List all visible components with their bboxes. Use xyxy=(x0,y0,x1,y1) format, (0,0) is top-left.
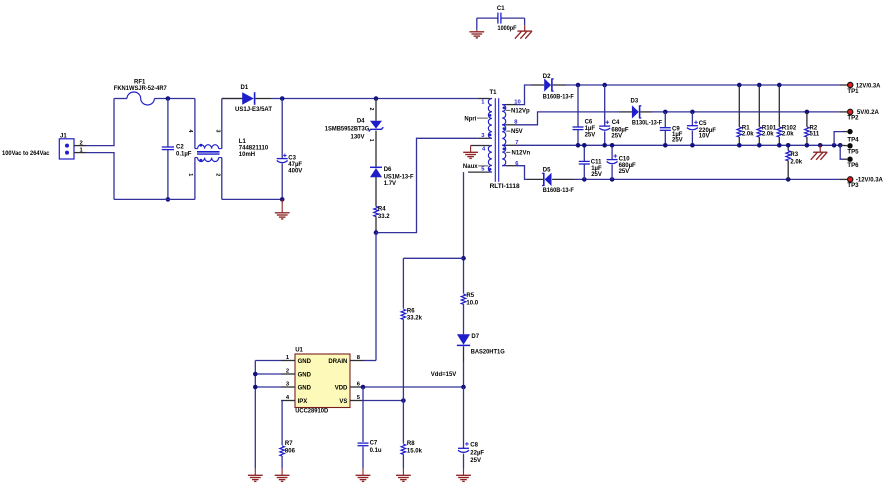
wire T1 pin10 to D2 xyxy=(517,85,532,105)
junction GND pin2 xyxy=(253,372,258,377)
junction R3 top xyxy=(786,143,791,148)
svg-text:10.0: 10.0 xyxy=(466,300,478,306)
svg-text:1SMB5952BT3G: 1SMB5952BT3G xyxy=(325,126,370,133)
wire L1 pin4 riser xyxy=(194,99,196,149)
U1 pin 3 GND xyxy=(281,382,312,392)
test point TP3 xyxy=(839,177,883,190)
svg-text:25V: 25V xyxy=(672,138,683,144)
svg-text:US1M-13-F: US1M-13-F xyxy=(384,173,414,180)
junction snubber bottom xyxy=(374,230,379,235)
capacitor C9 xyxy=(660,112,683,145)
svg-text:R1: R1 xyxy=(742,125,750,131)
diode D7 xyxy=(457,334,505,387)
wire VS rail xyxy=(364,400,403,402)
L1 pin 2 number xyxy=(214,173,220,176)
junction chassis ground xyxy=(818,143,823,148)
svg-text:GND: GND xyxy=(298,372,312,378)
test point TP4 xyxy=(843,129,859,144)
resistor R102 xyxy=(777,85,797,145)
junction TP4 riser xyxy=(832,143,837,148)
svg-text:2: 2 xyxy=(80,141,83,147)
svg-text:T1: T1 xyxy=(490,90,498,96)
label Npri xyxy=(464,116,487,122)
svg-text:C5: C5 xyxy=(699,121,707,127)
label Naux xyxy=(463,164,488,170)
junction C6 bottom xyxy=(576,143,581,148)
wire DRAIN riser xyxy=(364,360,376,362)
junction GND pin3 xyxy=(253,385,258,390)
svg-text:TP6: TP6 xyxy=(847,162,859,169)
svg-text:33.2k: 33.2k xyxy=(407,316,423,322)
junction C6 top xyxy=(576,83,581,88)
test point TP2 xyxy=(839,109,879,122)
wire to TP4 xyxy=(834,132,843,146)
T1 pin 5 number xyxy=(481,166,485,172)
svg-text:10V: 10V xyxy=(699,133,710,139)
svg-text:TP5: TP5 xyxy=(847,149,859,156)
svg-text:R2: R2 xyxy=(810,125,818,131)
svg-text:R7: R7 xyxy=(285,441,293,447)
junction C5 bottom xyxy=(690,143,695,148)
junction C11 top xyxy=(582,143,587,148)
svg-text:TP2: TP2 xyxy=(847,115,859,122)
junction VDD C8 xyxy=(461,385,466,390)
diode D1 xyxy=(222,85,272,113)
diode D3 xyxy=(619,99,662,127)
svg-text:C2: C2 xyxy=(176,144,184,150)
wire VS to R8 xyxy=(402,401,404,444)
wire D1 to T1 pin1 xyxy=(271,98,477,100)
svg-text:25V: 25V xyxy=(470,458,481,464)
label Vdd=15V xyxy=(431,371,457,378)
svg-text:D4: D4 xyxy=(357,118,365,124)
transformer T1 core xyxy=(490,90,499,182)
svg-text:2: 2 xyxy=(214,173,220,176)
svg-text:C7: C7 xyxy=(370,441,378,447)
svg-text:-12V/0.3A: -12V/0.3A xyxy=(856,177,884,184)
svg-text:VDD: VDD xyxy=(335,385,348,391)
earth ground GND bus xyxy=(248,469,263,482)
earth ground at C1 left xyxy=(469,18,484,38)
inductor L1 xyxy=(195,139,269,162)
svg-text:1.7V: 1.7V xyxy=(384,181,396,187)
svg-text:22µF: 22µF xyxy=(470,450,484,456)
J1 pin 2 stub xyxy=(74,141,86,147)
diode D2 xyxy=(531,74,574,100)
svg-text:400V: 400V xyxy=(288,169,302,175)
wire common rail xyxy=(517,144,841,146)
svg-text:B160B-13-F: B160B-13-F xyxy=(543,187,574,194)
junction C3 top xyxy=(280,96,285,101)
wire aux to R6 xyxy=(403,257,463,259)
diode D6 xyxy=(370,167,414,187)
resistor R101 xyxy=(757,85,777,145)
L1 pin 3 number xyxy=(214,130,220,133)
svg-text:UCC28910D: UCC28910D xyxy=(295,408,328,415)
svg-text:2: 2 xyxy=(368,108,374,111)
earth ground at T1 pin4 xyxy=(463,146,478,159)
wire 12V rail xyxy=(566,84,839,86)
capacitor C3 xyxy=(277,99,303,200)
capacitor C5 xyxy=(687,112,716,145)
junction VDD stub xyxy=(361,385,366,390)
capacitor C1 xyxy=(477,6,525,32)
earth ground R8 xyxy=(396,469,411,482)
svg-text:R3: R3 xyxy=(790,152,798,158)
U1 pin 2 GND xyxy=(281,369,312,379)
T1 pin 1 number xyxy=(481,100,485,106)
svg-text:C10: C10 xyxy=(619,156,631,162)
wire L1 pin3 riser xyxy=(221,99,223,149)
op-amp U1 body xyxy=(295,348,350,415)
svg-text:TP1: TP1 xyxy=(847,88,859,95)
svg-text:Npri: Npri xyxy=(464,116,476,122)
junction C10 top xyxy=(610,143,615,148)
earth ground C8 xyxy=(456,469,471,482)
resistor R7 xyxy=(280,441,296,469)
diode D5 xyxy=(527,167,574,194)
junction R101 top xyxy=(757,83,762,88)
junction C3 bottom xyxy=(280,197,285,202)
svg-text:4: 4 xyxy=(187,130,193,133)
svg-text:D6: D6 xyxy=(384,167,392,173)
svg-text:GND: GND xyxy=(298,385,312,391)
wire snubber node to T1 pin3 xyxy=(376,138,477,232)
label 100Vac to 264Vac xyxy=(2,150,50,157)
T1 secondary winding N12Vp xyxy=(502,105,516,125)
svg-text:Vdd=15V: Vdd=15V xyxy=(431,371,457,378)
svg-text:B160B-13-F: B160B-13-F xyxy=(543,93,574,100)
junction R3 bottom xyxy=(786,177,791,182)
svg-text:BAS20HT1G: BAS20HT1G xyxy=(471,349,505,356)
T1 secondary winding N5V xyxy=(502,125,516,145)
svg-text:15.0k: 15.0k xyxy=(407,448,423,454)
wire T1 pin6 to D5 xyxy=(517,166,528,180)
svg-text:L1: L1 xyxy=(239,139,247,145)
wire RF1 to L1 pin4 riser xyxy=(154,98,195,100)
svg-text:1µF: 1µF xyxy=(585,126,596,132)
svg-text:U1: U1 xyxy=(295,348,303,354)
svg-text:D2: D2 xyxy=(543,74,551,80)
resistor R5 xyxy=(461,293,479,334)
svg-text:D5: D5 xyxy=(543,167,551,173)
junction C4 bottom xyxy=(602,143,607,148)
wire bottom rail left xyxy=(114,198,195,200)
svg-text:C1: C1 xyxy=(497,6,505,12)
label N5V xyxy=(506,129,523,135)
junction C2 bottom xyxy=(166,197,171,202)
wire Naux down xyxy=(463,172,465,293)
L1 pin 1 number xyxy=(187,173,193,176)
svg-text:D7: D7 xyxy=(471,334,479,340)
svg-text:25V: 25V xyxy=(619,169,630,175)
resistor R8 xyxy=(401,441,422,469)
svg-text:511: 511 xyxy=(810,132,820,138)
J1 pin 1 stub xyxy=(74,148,86,154)
junction C5 top xyxy=(690,110,695,115)
svg-text:2: 2 xyxy=(286,369,289,375)
svg-text:2.0k: 2.0k xyxy=(742,132,754,138)
svg-text:3: 3 xyxy=(214,130,220,133)
resistor R3 xyxy=(786,145,803,179)
wire D4 to D6 xyxy=(375,131,377,167)
test point TP5 xyxy=(840,143,859,156)
junction VS node xyxy=(401,398,406,403)
svg-text:25V: 25V xyxy=(585,133,596,139)
junction aux node xyxy=(461,256,466,261)
svg-text:RLTI-1118: RLTI-1118 xyxy=(490,183,521,190)
connector J1 xyxy=(59,133,74,159)
svg-text:Naux: Naux xyxy=(463,164,478,170)
wire VDD rail xyxy=(364,386,464,388)
svg-text:C8: C8 xyxy=(470,442,478,448)
svg-text:C4: C4 xyxy=(612,120,620,126)
svg-text:TP4: TP4 xyxy=(847,137,859,144)
junction R101 bottom xyxy=(757,143,762,148)
wire R6 line xyxy=(402,258,404,308)
junction R102 bottom xyxy=(777,143,782,148)
capacitor C11 xyxy=(579,145,602,179)
T1 pin 4 number xyxy=(482,147,486,153)
capacitor C8 xyxy=(458,442,484,469)
svg-text:DRAIN: DRAIN xyxy=(328,359,347,365)
label N12Vn xyxy=(506,150,531,156)
label RLTI-1118 xyxy=(490,183,521,190)
T1 aux winding Naux xyxy=(468,146,492,173)
junction C4 top xyxy=(602,83,607,88)
svg-text:C6: C6 xyxy=(585,119,593,125)
svg-text:1: 1 xyxy=(368,139,374,142)
wire top rail L1 to D1 xyxy=(222,98,244,100)
svg-text:130V: 130V xyxy=(350,134,364,140)
svg-text:TP3: TP3 xyxy=(847,182,859,189)
svg-text:744821110: 744821110 xyxy=(239,145,269,151)
junction R102 top xyxy=(777,83,782,88)
capacitor C10 xyxy=(607,145,636,179)
junction R1 top xyxy=(737,83,742,88)
wire IPX to R7 xyxy=(281,401,283,446)
wire snubber node to DRAIN xyxy=(375,233,377,361)
svg-text:GND: GND xyxy=(298,359,312,365)
wire 5V rail xyxy=(652,111,839,113)
earth ground C7 xyxy=(356,469,371,482)
svg-text:1000pF: 1000pF xyxy=(498,26,517,32)
svg-text:N5V: N5V xyxy=(511,129,523,135)
U1 pin 8 DRAIN xyxy=(328,355,364,365)
capacitor C2 xyxy=(162,99,192,200)
T1 secondary winding N12Vn xyxy=(502,145,516,165)
svg-text:C11: C11 xyxy=(591,160,602,166)
U1 pin 4 IPX xyxy=(281,395,307,405)
capacitor C4 xyxy=(599,85,629,145)
T1 pin 10 number xyxy=(514,99,520,105)
svg-text:B130L-13-F: B130L-13-F xyxy=(632,119,662,126)
svg-text:100Vac to 264Vac: 100Vac to 264Vac xyxy=(2,150,50,157)
junction R1 bottom xyxy=(737,143,742,148)
svg-text:R6: R6 xyxy=(407,308,415,314)
resistor R6 xyxy=(401,308,422,400)
svg-text:33.2: 33.2 xyxy=(378,214,390,220)
wire J1 pin1 to bottom rail xyxy=(86,153,114,200)
svg-text:C3: C3 xyxy=(288,155,296,161)
wire J1 pin2 to top rail xyxy=(86,99,114,146)
svg-text:VS: VS xyxy=(339,399,347,405)
svg-text:J1: J1 xyxy=(60,133,67,139)
wire L1 pin2 riser xyxy=(221,158,223,200)
test point TP1 xyxy=(839,82,881,95)
svg-text:R102: R102 xyxy=(782,125,797,131)
wire bottom rail right xyxy=(222,198,282,200)
svg-text:0.1µF: 0.1µF xyxy=(176,152,192,158)
junction C2 top xyxy=(166,96,171,101)
junction TP5 TP6 xyxy=(838,143,843,148)
wire VDD to C8 xyxy=(463,387,465,448)
T1 pin 8 number xyxy=(514,120,518,126)
U1 pin 5 VS xyxy=(339,395,364,405)
capacitor C7 xyxy=(358,441,382,469)
wire GND pins bus xyxy=(255,361,281,469)
svg-text:R8: R8 xyxy=(407,441,415,447)
L1 pin 4 number xyxy=(187,130,193,133)
svg-text:680µF: 680µF xyxy=(619,163,636,169)
earth ground at C3 xyxy=(275,199,290,219)
test point TP6 xyxy=(843,157,859,170)
svg-text:R5: R5 xyxy=(466,293,474,299)
earth ground R7 xyxy=(275,469,290,482)
junction R2 bottom xyxy=(805,143,810,148)
resistor R2 xyxy=(805,112,820,145)
wire T1 pin8 to 5V rail xyxy=(517,112,620,125)
U1 pin 6 VDD xyxy=(335,382,364,392)
svg-text:R101: R101 xyxy=(762,125,777,131)
svg-text:12V/0.3A: 12V/0.3A xyxy=(856,82,881,89)
svg-text:2.0k: 2.0k xyxy=(782,132,794,138)
resistor R1 xyxy=(737,85,754,145)
chassis ground at C1 right xyxy=(515,18,532,39)
svg-text:D1: D1 xyxy=(241,85,249,91)
svg-text:D3: D3 xyxy=(631,99,639,105)
junction R2 top xyxy=(805,110,810,115)
D4 pin 1 number xyxy=(368,139,374,142)
capacitor C6 xyxy=(573,85,596,145)
U1 pin 1 GND xyxy=(281,355,312,365)
junction snubber top xyxy=(374,96,379,101)
svg-text:10mH: 10mH xyxy=(239,152,255,158)
D4 pin 2 number xyxy=(368,108,374,111)
wire -12V rail xyxy=(574,178,839,180)
label N12Vp xyxy=(506,108,530,114)
svg-text:US1J-E3/5AT: US1J-E3/5AT xyxy=(235,106,272,113)
T1 pin 3 number xyxy=(481,133,485,139)
junction C9 bottom xyxy=(663,143,668,148)
resistor R4 xyxy=(374,177,391,233)
svg-text:1: 1 xyxy=(187,173,193,176)
junction C11 bottom xyxy=(582,177,587,182)
svg-text:0.1u: 0.1u xyxy=(370,448,382,454)
svg-text:806: 806 xyxy=(285,448,296,454)
wire L1 pin1 riser xyxy=(194,158,196,200)
svg-text:25V: 25V xyxy=(591,172,602,178)
svg-text:25V: 25V xyxy=(611,133,622,139)
svg-text:47µF: 47µF xyxy=(288,162,302,168)
T1 pin 6 number xyxy=(515,161,519,167)
svg-text:2.0k: 2.0k xyxy=(762,132,774,138)
svg-text:5V/0.2A: 5V/0.2A xyxy=(857,109,880,116)
svg-text:2.0k: 2.0k xyxy=(790,159,802,165)
junction C9 top xyxy=(663,110,668,115)
svg-text:FKN1WSJR-52-4R7: FKN1WSJR-52-4R7 xyxy=(114,85,168,92)
wire to TP6 xyxy=(840,145,843,159)
T1 primary winding Npri xyxy=(477,99,492,139)
svg-text:R4: R4 xyxy=(378,207,386,213)
wire top rail left xyxy=(114,98,127,100)
zener D4 xyxy=(325,99,384,141)
svg-text:N12Vn: N12Vn xyxy=(512,150,531,156)
junction C10 bottom xyxy=(610,177,615,182)
T1 pin 7 number xyxy=(515,140,518,146)
svg-text:N12Vp: N12Vp xyxy=(511,108,530,114)
fusible resistor RF1 xyxy=(114,79,168,105)
wire VDD to C7 xyxy=(362,387,364,442)
svg-text:IPX: IPX xyxy=(298,399,308,405)
chassis ground secondary xyxy=(811,145,828,160)
